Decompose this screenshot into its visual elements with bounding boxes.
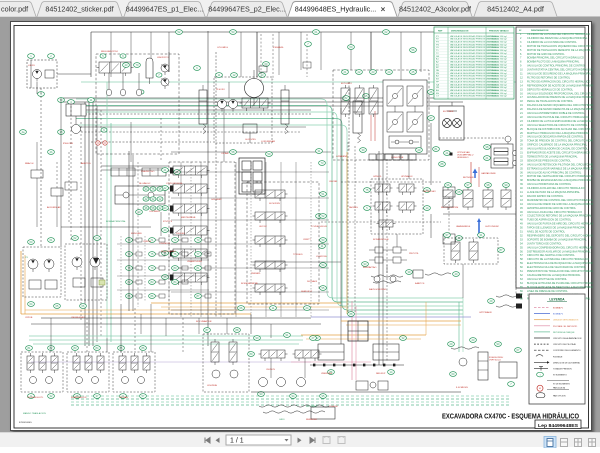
svg-text:ILSCMILNN: ILSCMILNN <box>456 387 468 389</box>
svg-text:VALVULA SHUTTLE DE CONTROL: VALVULA SHUTTLE DE CONTROL <box>527 278 568 281</box>
svg-text:ESTRANGULADOR VARIABLE DE LA M: ESTRANGULADOR VARIABLE DE LA MAQUINA PRI… <box>527 167 593 170</box>
svg-text:RETORNO AL TANQUE: RETORNO AL TANQUE <box>553 331 575 334</box>
svg-text:AMORTIGUADOR DE GIRO DE CONTRO: AMORTIGUADOR DE GIRO DE CONTROL <box>527 207 577 210</box>
svg-text:OTVUORVNOSL: OTVUORVNOSL <box>166 183 184 185</box>
svg-text:EXCAVADORA CX470C - ESQUEMA HI: EXCAVADORA CX470C - ESQUEMA HIDRÁULICO <box>442 412 579 421</box>
svg-text:84499647ES_p2_Elec...: 84499647ES_p2_Elec... <box>208 5 286 14</box>
svg-text:RTVITTS: RTVITTS <box>163 221 173 223</box>
svg-text:VSFTSLILU: VSFTSLILU <box>489 360 501 362</box>
svg-text:PACRES: PACRES <box>349 206 358 209</box>
svg-text:BOMBA P1: BOMBA P1 <box>553 307 564 310</box>
svg-text:TIGSOM: TIGSOM <box>329 406 338 408</box>
svg-text:MANOMETRO DE CONTROL DEL CIRCU: MANOMETRO DE CONTROL DEL CIRCUITO HIDRAU… <box>527 199 593 202</box>
svg-text:BOMBA PRINCIPAL DEL CIRCUITO H: BOMBA PRINCIPAL DEL CIRCUITO HIDRAULICO <box>527 57 584 60</box>
svg-text:JUNTA TORICA DE CONTROL: JUNTA TORICA DE CONTROL <box>527 242 562 245</box>
svg-text:UPVNADLF: UPVNADLF <box>401 175 413 178</box>
svg-text:ELECTROVALVULA DE BLOQUEO DE L: ELECTROVALVULA DE BLOQUEO DE LA MAQUINA … <box>527 262 593 265</box>
svg-text:VALVULA SOLENOIDE PROPORCIONAL: VALVULA SOLENOIDE PROPORCIONAL DEL CIRCU… <box>527 92 593 95</box>
svg-text:CILINDRO DEL BRAZO DE LA MAQUI: CILINDRO DEL BRAZO DE LA MAQUINA PRINCIP… <box>527 37 588 40</box>
svg-text:LFSVRVA: LFSVRVA <box>207 384 217 387</box>
svg-text:CILINDRO DE LA PLUMA DEL CIRCU: CILINDRO DE LA PLUMA DEL CIRCUITO HIDRAU… <box>527 33 590 36</box>
svg-text:PALANCA DE MANDO DERECHA DE LA: PALANCA DE MANDO DERECHA DE LA MAQUINA P… <box>527 108 593 111</box>
svg-text:87680168ES: 87680168ES <box>19 422 32 424</box>
svg-text:MANDO TRASLACION: MANDO TRASLACION <box>23 412 46 415</box>
svg-text:SOPORTE DE BOMBA DE LA MAQUINA: SOPORTE DE BOMBA DE LA MAQUINA PRINCIPAL <box>527 238 587 241</box>
svg-text:VALVULA DE SEGURIDAD DE LA MAQ: VALVULA DE SEGURIDAD DE LA MAQUINA PRINC… <box>527 73 592 76</box>
svg-text:BOMBA DE ENGRANAJES DE LA MAQU: BOMBA DE ENGRANAJES DE LA MAQUINA PRINCI… <box>527 179 592 182</box>
svg-text:245/260 bar 350 kgf: 245/260 bar 350 kgf <box>488 83 507 86</box>
svg-text:OICBAI: OICBAI <box>221 152 229 155</box>
svg-text:MOTOR DE TRASLACION DERECHO DE: MOTOR DE TRASLACION DERECHO DE LA MAQUIN… <box>527 49 593 52</box>
svg-text:ELECTROVALVULA DE VELOCIDAD DE: ELECTROVALVULA DE VELOCIDAD DE CONTROL <box>527 266 587 269</box>
svg-text:LINEA DE SERVOMANDOS: LINEA DE SERVOMANDOS <box>553 319 579 322</box>
svg-text:LIIEDV: LIIEDV <box>28 65 35 67</box>
svg-text:84499648ES_Hydraulic...: 84499648ES_Hydraulic... <box>295 5 377 14</box>
svg-text:LVINBIBNP: LVINBIBNP <box>336 156 348 158</box>
svg-text:GIRO: GIRO <box>279 419 285 421</box>
svg-text:1 / 1: 1 / 1 <box>230 438 244 445</box>
svg-text:VBNBBTUUFB: VBNBBTUUFB <box>187 261 202 263</box>
svg-text:RESPIRADERO DEL DEPOSITO DEL C: RESPIRADERO DEL DEPOSITO DEL CIRCUITO HI… <box>527 234 593 237</box>
svg-text:DIICNAVII: DIICNAVII <box>307 280 317 283</box>
svg-text:×: × <box>381 5 386 14</box>
svg-text:TAPNPFSEV: TAPNPFSEV <box>423 190 436 193</box>
svg-text:VALVULA REGULADORA DE CAUDAL D: VALVULA REGULADORA DE CAUDAL DE CONTROL <box>527 148 588 151</box>
svg-text:245/260 bar 350 kgf: 245/260 bar 350 kgf <box>488 78 507 81</box>
svg-text:245/260 bar 350 kgf: 245/260 bar 350 kgf <box>488 55 507 58</box>
svg-text:LLAVE DE PASO DE LA MAQUINA PR: LLAVE DE PASO DE LA MAQUINA PRINCIPAL <box>527 191 581 194</box>
svg-text:CILINDRO AUXILIAR DEL CIRCUITO: CILINDRO AUXILIAR DEL CIRCUITO HIDRAULIC… <box>527 187 585 190</box>
svg-text:BLOQUE ANTICAIDA DE PLUMA DEL: BLOQUE ANTICAIDA DE PLUMA DEL CIRCUITO H… <box>527 282 593 285</box>
svg-text:PALANCA DE MANDO IZQUIERDA DEL: PALANCA DE MANDO IZQUIERDA DEL CIRCUITO … <box>527 104 593 107</box>
svg-text:FILTRO DE ASPIRACION DEL CIRCU: FILTRO DE ASPIRACION DEL CIRCUITO HIDRAU… <box>527 80 590 83</box>
svg-text:245/260 bar 350 kgf: 245/260 bar 350 kgf <box>488 41 507 44</box>
svg-text:245/260 bar 350 kgf: 245/260 bar 350 kgf <box>488 89 507 92</box>
svg-text:CIRCUITO DE PILOTAJE: CIRCUITO DE PILOTAJE <box>553 343 576 346</box>
svg-text:MSNCASD: MSNCASD <box>131 232 142 235</box>
svg-text:245/260 bar 350 kgf: 245/260 bar 350 kgf <box>488 43 507 46</box>
svg-text:NLLVAUGC: NLLVAUGC <box>139 182 151 185</box>
svg-text:RONRUDPGLB: RONRUDPGLB <box>373 239 389 241</box>
svg-text:LEYENDA: LEYENDA <box>549 298 565 302</box>
svg-text:DIRECCION DE LA TUBERIA: DIRECCION DE LA TUBERIA <box>553 361 580 364</box>
svg-text:PPGCIDMDBO: PPGCIDMDBO <box>161 251 176 253</box>
svg-text:68: 68 <box>520 298 523 301</box>
svg-text:VALVULA DE PURGA DE AIRE DEL C: VALVULA DE PURGA DE AIRE DEL CIRCUITO HI… <box>527 223 593 226</box>
svg-text:BLOQUE ANTICAIDA DE BRAZO DE L: BLOQUE ANTICAIDA DE BRAZO DE LA MAQUINA … <box>527 286 593 289</box>
svg-text:PBFPAPL: PBFPAPL <box>251 272 261 275</box>
svg-text:CPPSULVAD: CPPSULVAD <box>457 151 470 154</box>
svg-text:BOMBA P2: BOMBA P2 <box>553 313 564 316</box>
svg-text:245/260 bar 350 kgf: 245/260 bar 350 kgf <box>488 86 507 89</box>
svg-text:DEPOSITO HIDRAULICO DE CONTROL: DEPOSITO HIDRAULICO DE CONTROL <box>527 88 574 91</box>
svg-text:84512402_A3color.pdf: 84512402_A3color.pdf <box>399 5 471 14</box>
svg-text:RNPMVEGRPFM: RNPMVEGRPFM <box>441 207 458 209</box>
svg-text:GPNLCL: GPNLCL <box>373 176 383 178</box>
svg-text:245/260 bar 350 kgf: 245/260 bar 350 kgf <box>488 72 507 75</box>
svg-text:BOMBA PILOTO DE LA MAQUINA PRI: BOMBA PILOTO DE LA MAQUINA PRINCIPAL <box>527 61 580 64</box>
svg-text:CIRCUITO DEL MARTILLO DE CONTR: CIRCUITO DEL MARTILLO DE CONTROL <box>527 254 575 257</box>
svg-text:BLOQUE DE DISTRIBUCION AUXILIA: BLOQUE DE DISTRIBUCION AUXILIAR DEL CIRC… <box>527 128 593 131</box>
svg-text:P3: P3 <box>25 257 28 259</box>
svg-text:PAR (DaN.M): PAR (DaN.M) <box>553 386 565 389</box>
svg-text:LIDGNDVF: LIDGNDVF <box>159 243 171 245</box>
svg-text:Lep 84499648ES: Lep 84499648ES <box>538 423 578 428</box>
svg-text:VAMMGRNSS: VAMMGRNSS <box>456 225 471 228</box>
svg-text:RBACGI: RBACGI <box>25 162 34 165</box>
svg-text:VALVULA DE ALIVIO PRINCIPAL DE: VALVULA DE ALIVIO PRINCIPAL DE CONTROL <box>527 171 582 174</box>
svg-text:ORIFICIO CALIBRADO DE LA MAQUI: ORIFICIO CALIBRADO DE LA MAQUINA PRINCIP… <box>527 144 588 147</box>
svg-text:EIVVLRPO: EIVVLRPO <box>341 83 352 85</box>
svg-text:VALVULA ANTIRRETORNO DOBLE DE: VALVULA ANTIRRETORNO DOBLE DE CONTROL <box>527 112 585 115</box>
svg-text:DENOMINACION: DENOMINACION <box>451 30 469 33</box>
svg-text:REFRIGERADOR DE ACEITE DE LA M: REFRIGERADOR DE ACEITE DE LA MAQUINA PRI… <box>527 84 593 87</box>
svg-text:VALVULA SELECTORA DE CIRCUITO: VALVULA SELECTORA DE CIRCUITO DE CONTROL <box>527 124 588 127</box>
svg-text:TOMA DE PRESION: TOMA DE PRESION <box>553 368 572 371</box>
svg-text:66: 66 <box>520 290 523 293</box>
svg-text:TERMOSTATO DE LA MAQUINA PRINC: TERMOSTATO DE LA MAQUINA PRINCIPAL <box>527 155 578 158</box>
svg-text:GGVSERF: GGVSERF <box>211 199 222 201</box>
svg-text:ACUMULADOR DE PRESION DE LA MA: ACUMULADOR DE PRESION DE LA MAQUINA PRIN… <box>527 96 593 99</box>
svg-text:GPTPIEADR: GPTPIEADR <box>479 311 492 314</box>
svg-text:CBICBN: CBICBN <box>329 181 338 183</box>
svg-text:UDMUGEO: UDMUGEO <box>457 157 469 159</box>
svg-text:SERFULVT: SERFULVT <box>301 291 313 293</box>
svg-text:ROCUNARTDR: ROCUNARTDR <box>196 320 212 323</box>
svg-text:DISTRIBUIDOR AUXILIAR DE LA MA: DISTRIBUIDOR AUXILIAR DE LA MAQUINA PRIN… <box>527 250 591 253</box>
svg-text:VREIFFRA: VREIFFRA <box>321 372 332 375</box>
svg-text:FLEXIBLE: FLEXIBLE <box>553 356 563 358</box>
svg-text:245/260 bar 350 kgf: 245/260 bar 350 kgf <box>488 80 507 83</box>
svg-text:NIVEL DE ACEITE DE CONTROL: NIVEL DE ACEITE DE CONTROL <box>527 231 566 234</box>
svg-text:CRUNLGNILP: CRUNLGNILP <box>71 317 86 319</box>
svg-text:SICSVDBV: SICSVDBV <box>269 203 281 205</box>
svg-text:245/260 bar 350 kgf: 245/260 bar 350 kgf <box>488 58 507 61</box>
svg-text:IPEGCRR: IPEGCRR <box>63 143 73 145</box>
svg-text:PILOTAJE / EL DEPOSITO: PILOTAJE / EL DEPOSITO <box>553 325 578 328</box>
svg-text:VALVULA DE RETENCION PILOTADA: VALVULA DE RETENCION PILOTADA DEL CIRCUI… <box>527 163 593 166</box>
svg-text:245/260 bar 350 kgf: 245/260 bar 350 kgf <box>488 35 507 38</box>
svg-text:245/260 bar 350 kgf: 245/260 bar 350 kgf <box>488 52 507 55</box>
svg-text:VALVULA PRIORITARIA DE CONTROL: VALVULA PRIORITARIA DE CONTROL <box>527 183 572 186</box>
svg-text:PRESION TARADO: PRESION TARADO <box>489 30 509 33</box>
svg-text:MARTILLO HIDRAULICO DE LA MAQU: MARTILLO HIDRAULICO DE LA MAQUINA PRINCI… <box>527 132 590 135</box>
svg-text:84512402_sticker.pdf: 84512402_sticker.pdf <box>45 5 113 14</box>
svg-text:CONTORNO DEL ELEMENTO: CONTORNO DEL ELEMENTO <box>553 350 581 352</box>
svg-text:NRILFDP: NRILFDP <box>376 373 386 375</box>
svg-text:245/260 bar 350 kgf: 245/260 bar 350 kgf <box>488 95 507 98</box>
svg-text:245/260 bar 350 kgf: 245/260 bar 350 kgf <box>488 69 507 72</box>
svg-text:CILINDRO DE LA HOJA EMPUJADORA: CILINDRO DE LA HOJA EMPUJADORA DE LA MAQ… <box>527 120 593 123</box>
svg-text:VGMPOSU: VGMPOSU <box>316 256 328 258</box>
svg-text:GUTFCMUNC: GUTFCMUNC <box>485 226 500 228</box>
svg-text:GLCFVIFS: GLCFVIFS <box>245 139 256 141</box>
svg-text:VALVULA COMPENSADORA DEL CIRCU: VALVULA COMPENSADORA DEL CIRCUITO HIDRAU… <box>527 246 593 249</box>
svg-text:TAPON DE LLENADO DE LA MAQUINA: TAPON DE LLENADO DE LA MAQUINA PRINCIPAL <box>527 227 586 230</box>
svg-text:VALVULA DE DESCARGA RAPIDA DE: VALVULA DE DESCARGA RAPIDA DE CONTROL <box>527 136 584 139</box>
svg-text:84512402_A4.pdf: 84512402_A4.pdf <box>487 5 544 14</box>
svg-text:LINEA DE DRENAJE DE CONTROL: LINEA DE DRENAJE DE CONTROL <box>527 290 568 293</box>
svg-text:245/260 bar 350 kgf: 245/260 bar 350 kgf <box>488 92 507 95</box>
svg-text:245/260 bar 350 kgf: 245/260 bar 350 kgf <box>488 49 507 52</box>
svg-text:VALVULA DE CONTROL PRINCIPAL D: VALVULA DE CONTROL PRINCIPAL DE CONTROL <box>527 65 586 68</box>
svg-text:RORRSBDBPND: RORRSBDBPND <box>241 283 258 285</box>
svg-text:245/260 bar 350 kgf: 245/260 bar 350 kgf <box>488 38 507 41</box>
svg-text:PAR OPCION: PAR OPCION <box>553 395 566 398</box>
svg-text:DENOMINACION: DENOMINACION <box>531 29 549 32</box>
svg-text:SENSOR DE PRESION DE CONTROL: SENSOR DE PRESION DE CONTROL <box>527 159 571 162</box>
svg-text:N° ELEMENTO: N° ELEMENTO <box>553 375 567 377</box>
svg-text:REBMOBO: REBMOBO <box>306 419 317 421</box>
svg-text:EABITCS: EABITCS <box>415 282 425 285</box>
svg-text:ENFRIADOR DE ACEITE DEL CIRCUI: ENFRIADOR DE ACEITE DEL CIRCUITO HIDRAUL… <box>527 152 590 155</box>
svg-text:VALVULA LOGICA DEL CIRCUITO HI: VALVULA LOGICA DEL CIRCUITO HIDRAULICO <box>527 211 582 214</box>
svg-text:TOMA DE PRESION DE CONTROL DEL: TOMA DE PRESION DE CONTROL DEL CIRCUITO … <box>527 140 593 143</box>
svg-text:245/260 bar 350 kgf: 245/260 bar 350 kgf <box>488 60 507 63</box>
svg-text:CILINDRO DE LA CUCHARA DE CONT: CILINDRO DE LA CUCHARA DE CONTROL <box>527 41 577 44</box>
svg-text:CIRCUITO DE ALIMENTACION: CIRCUITO DE ALIMENTACION <box>553 337 582 340</box>
svg-text:VALVULA DE FRENO DE GIRO DE LA: VALVULA DE FRENO DE GIRO DE LA MAQUINA P… <box>527 203 593 206</box>
svg-text:OGCBIMCI: OGCBIMCI <box>149 211 160 213</box>
svg-text:245/260 bar 350 kgf: 245/260 bar 350 kgf <box>488 46 507 49</box>
svg-text:AVGVRISLAF: AVGVRISLAF <box>47 206 61 209</box>
svg-text:color.pdf: color.pdf <box>1 5 28 14</box>
svg-text:MOTOR DE TRASLACION IZQUIERDO: MOTOR DE TRASLACION IZQUIERDO DEL CIRCUI… <box>527 45 593 48</box>
svg-text:RAUVGORCNND: RAUVGORCNND <box>369 288 387 291</box>
svg-text:45: 45 <box>539 388 541 390</box>
svg-text:VLNDMRFSALU: VLNDMRFSALU <box>457 154 474 157</box>
svg-text:CIRCUITO DE LA PINZA DEL CIRCU: CIRCUITO DE LA PINZA DEL CIRCUITO HIDRAU… <box>527 258 589 261</box>
svg-text:MOTOR DE GIRO DE CONTROL: MOTOR DE GIRO DE CONTROL <box>527 53 565 56</box>
svg-text:AEIETDG: AEIETDG <box>81 162 91 165</box>
svg-text:PNATNFTGO: PNATNFTGO <box>141 170 155 173</box>
svg-text:PLSOFO: PLSOFO <box>216 89 225 91</box>
svg-text:CAUDALIMETRO DE LA MAQUINA PRI: CAUDALIMETRO DE LA MAQUINA PRINCIPAL <box>527 274 581 277</box>
svg-text:FILTRO DE RETORNO DE CONTROL: FILTRO DE RETORNO DE CONTROL <box>527 76 571 79</box>
svg-text:UILTGV: UILTGV <box>259 226 267 228</box>
svg-text:N° DE ELEMENTO: N° DE ELEMENTO <box>553 384 571 386</box>
svg-text:TUBO DE ASPIRACION DE CONTROL: TUBO DE ASPIRACION DE CONTROL <box>527 219 572 222</box>
svg-text:BOMBA PRINCIPAL: BOMBA PRINCIPAL <box>106 220 127 223</box>
svg-text:TITRGDD: TITRGDD <box>293 254 303 256</box>
svg-text:CIFRTT: CIFRTT <box>303 239 311 241</box>
svg-text:MUAVMDELDD: MUAVMDELDD <box>71 396 87 399</box>
svg-text:VELMGNGLUTL: VELMGNGLUTL <box>27 397 44 399</box>
svg-text:LOFDFMDAM: LOFDFMDAM <box>261 140 275 143</box>
svg-text:MOTOR DEL VENTILADOR DEL CIRCU: MOTOR DEL VENTILADOR DEL CIRCUITO HIDRAU… <box>527 175 593 178</box>
svg-text:RNLEGNDCPDO: RNLEGNDCPDO <box>101 51 118 53</box>
svg-text:CRLBAN: CRLBAN <box>119 396 128 399</box>
svg-text:PRVVITIL: PRVVITIL <box>409 253 419 255</box>
svg-text:245/260 bar 350 kgf: 245/260 bar 350 kgf <box>488 63 507 66</box>
svg-text:COLECTOR DE RETORNO DE LA MAQU: COLECTOR DE RETORNO DE LA MAQUINA PRINCI… <box>527 215 592 218</box>
svg-text:GTLUMDG: GTLUMDG <box>217 47 228 49</box>
svg-text:RETORNO: RETORNO <box>306 406 317 408</box>
svg-text:UANTADOMIB: UANTADOMIB <box>481 172 496 175</box>
svg-text:245/260 bar 350 kgf: 245/260 bar 350 kgf <box>488 75 507 78</box>
svg-text:PEDAL DE TRASLACION DE CONTROL: PEDAL DE TRASLACION DE CONTROL <box>527 100 574 103</box>
svg-text:EUTCBDE: EUTCBDE <box>443 111 454 113</box>
svg-text:LBSVDPCV: LBSVDPCV <box>157 57 169 59</box>
svg-text:84499647ES_p1_Elec...: 84499647ES_p1_Elec... <box>126 5 204 14</box>
svg-text:PRESOSTATO DE TRASLACION DEL C: PRESOSTATO DE TRASLACION DEL CIRCUITO HI… <box>527 270 593 273</box>
svg-text:JUNTA ROTATIVA CENTRAL DEL CIR: JUNTA ROTATIVA CENTRAL DEL CIRCUITO HIDR… <box>527 69 593 72</box>
svg-text:BLPNGSN: BLPNGSN <box>463 177 474 179</box>
svg-text:RACOR RAPIDO DE CONTROL: RACOR RAPIDO DE CONTROL <box>527 195 564 198</box>
svg-text:VGULEO: VGULEO <box>176 233 185 235</box>
svg-text:MRVTEGMGB: MRVTEGMGB <box>181 217 196 219</box>
svg-text:67: 67 <box>520 294 523 297</box>
svg-text:IOFMAVEL: IOFMAVEL <box>273 46 285 49</box>
svg-text:REF: REF <box>438 31 443 33</box>
svg-text:CIPDIB: CIPDIB <box>25 317 33 319</box>
svg-text:245/260 bar 350 kgf: 245/260 bar 350 kgf <box>488 66 507 69</box>
svg-text:DR: DR <box>436 56 440 58</box>
svg-text:N°: N° <box>519 30 522 32</box>
svg-text:VALVULA DE PILOTAJE DEL CIRCUI: VALVULA DE PILOTAJE DEL CIRCUITO HIDRAUL… <box>527 116 589 119</box>
svg-text:BGRPAPTAO: BGRPAPTAO <box>363 266 377 269</box>
svg-text:CMIPIM: CMIPIM <box>143 241 151 243</box>
